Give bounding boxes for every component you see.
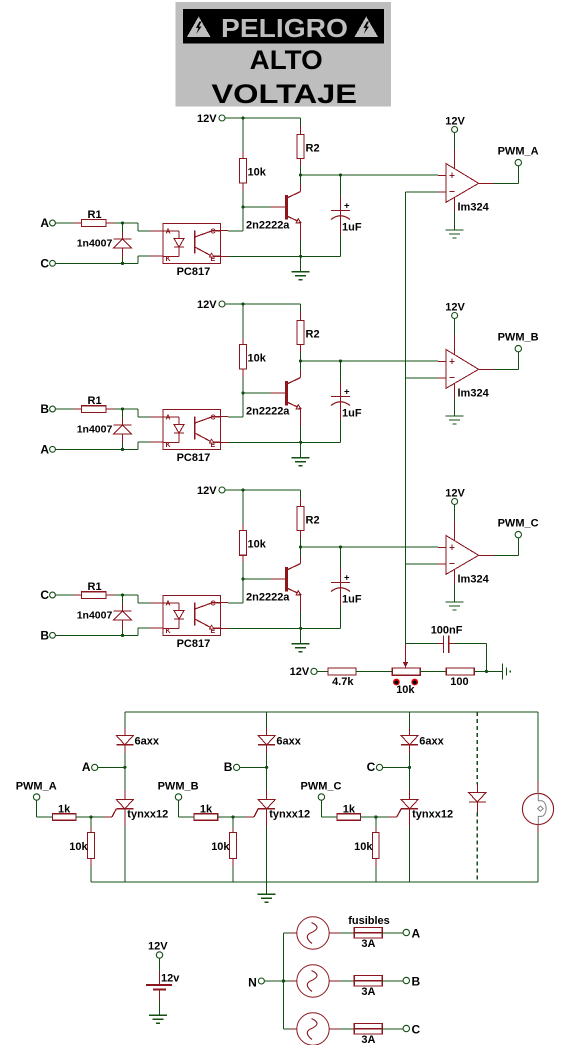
svg-text:C: C xyxy=(211,601,216,608)
junction xyxy=(299,441,302,444)
wire R1 to opto xyxy=(106,595,163,603)
wire 1k to gate xyxy=(218,816,254,818)
wire pot to 100 xyxy=(420,670,446,672)
thyristor SCR1 tynxx12 xyxy=(112,767,168,882)
wire base wire xyxy=(243,392,285,394)
node PWM_A gate terminal xyxy=(16,781,57,801)
ground (op-amp 2) xyxy=(446,384,464,424)
warning triangle right xyxy=(355,17,378,37)
svg-text:tynxx12: tynxx12 xyxy=(127,809,168,821)
svg-text:lm324: lm324 xyxy=(458,388,490,400)
svg-text:ALTO: ALTO xyxy=(250,45,323,75)
wire 1k to gate xyxy=(76,816,112,818)
node PWM_B gate terminal xyxy=(158,781,199,801)
diode (dashed branch) xyxy=(469,785,486,813)
svg-text:C: C xyxy=(40,257,49,271)
wire minus input xyxy=(406,377,447,379)
junction xyxy=(299,545,302,548)
svg-text:K: K xyxy=(166,442,171,449)
wire rail to R2 xyxy=(300,118,302,134)
resistor 100 xyxy=(446,668,474,688)
resistor 10k (gate pulldown, block 2) xyxy=(211,817,236,882)
wire 10k branch xyxy=(242,118,244,158)
svg-text:PWM_B: PWM_B xyxy=(498,332,539,344)
svg-text:1uF: 1uF xyxy=(342,594,362,606)
wire source to fuse xyxy=(329,1028,354,1030)
wire op-amp output xyxy=(479,352,519,369)
ground (op-amp 3) xyxy=(446,570,464,610)
AC source V2 xyxy=(297,965,329,997)
resistor 10k (stage 2 base pullup) xyxy=(240,344,267,369)
wire op-amp output xyxy=(479,166,519,183)
svg-text:PWM_A: PWM_A xyxy=(498,146,539,158)
transistor Q1 2n2222a xyxy=(246,192,301,232)
svg-text:B: B xyxy=(40,629,49,643)
svg-text:R1: R1 xyxy=(88,209,102,221)
node B (mains phase) xyxy=(403,975,420,989)
svg-text:+: + xyxy=(344,573,350,584)
op-amp U6 lm324 xyxy=(446,536,490,586)
ground (battery) xyxy=(149,1015,167,1023)
wire emitter down xyxy=(300,595,302,629)
svg-text:R2: R2 xyxy=(306,329,320,341)
svg-text:10k: 10k xyxy=(396,684,415,696)
junction xyxy=(241,116,244,119)
svg-text:1n4007: 1n4007 xyxy=(77,610,113,622)
wire phase to SCR xyxy=(383,766,410,768)
wire rail to R2 xyxy=(300,490,302,506)
svg-text:A: A xyxy=(166,415,171,422)
wire collector node to op-amp xyxy=(301,546,447,548)
svg-text:100: 100 xyxy=(450,676,468,688)
wire R2 to collector node xyxy=(300,344,302,377)
wire emitter rail xyxy=(221,441,341,443)
junction xyxy=(241,302,244,305)
banner black bar xyxy=(183,9,384,44)
capacitor 1uF (stage 2) xyxy=(331,361,362,442)
svg-text:6axx: 6axx xyxy=(135,736,160,748)
junction xyxy=(241,391,244,394)
resistor 10k (gate pulldown, block 3) xyxy=(354,817,379,882)
junction xyxy=(121,448,124,451)
node N (neutral) xyxy=(248,976,264,990)
junction xyxy=(231,815,234,818)
node A (stage 1 input) xyxy=(40,216,55,230)
wire 1k to gate xyxy=(361,816,397,818)
svg-text:PWM_C: PWM_C xyxy=(301,781,342,793)
wire dashed branch xyxy=(476,712,478,882)
node A (phase input) xyxy=(82,760,98,774)
junction xyxy=(121,634,124,637)
power terminal 12V (stage 1) xyxy=(197,113,225,125)
svg-text:12v: 12v xyxy=(161,973,180,985)
wire R1 to opto xyxy=(106,409,163,417)
ground (stage 2 emitter) xyxy=(292,442,310,465)
svg-text:PELIGRO: PELIGRO xyxy=(221,13,348,43)
resistor R1 (stage 3) xyxy=(81,581,105,598)
wire input to R1 xyxy=(55,222,81,224)
wire 12V rail xyxy=(225,303,301,305)
diode 1n4007 (stage 1) xyxy=(77,223,132,263)
node B (stage 3 return) xyxy=(40,629,55,643)
resistor 10k (stage 1 base pullup) xyxy=(240,158,267,183)
wire emitter rail xyxy=(221,627,341,629)
ground (bottom rail) xyxy=(258,882,276,902)
resistor R2 (stage 2) xyxy=(297,320,319,344)
junction xyxy=(339,545,342,548)
wire 12V to op-amp xyxy=(454,133,456,169)
wire neutral bus xyxy=(265,933,284,1029)
power terminal 12V (stage 2) xyxy=(197,299,225,311)
wire 4.7k to pot xyxy=(356,670,392,672)
svg-text:C: C xyxy=(40,588,49,602)
svg-text:1uF: 1uF xyxy=(342,222,362,234)
resistor R2 (stage 1) xyxy=(297,134,319,158)
svg-text:R2: R2 xyxy=(306,143,320,155)
node PWM_C gate terminal xyxy=(301,781,342,801)
svg-text:A: A xyxy=(412,927,421,941)
junction xyxy=(241,577,244,580)
svg-text:B: B xyxy=(412,975,421,989)
node C (mains phase) xyxy=(403,1023,420,1037)
wire emitter down xyxy=(300,409,302,443)
node PWM_A output terminal xyxy=(498,146,539,166)
svg-text:lm324: lm324 xyxy=(458,202,490,214)
junction xyxy=(408,766,411,769)
wire 10k branch xyxy=(242,304,244,344)
power terminal 12V (op-amp 2) xyxy=(445,301,465,318)
wire R2 to collector node xyxy=(300,530,302,563)
resistor 10k (gate pulldown, block 1) xyxy=(69,817,94,882)
wire bus to source xyxy=(283,1028,296,1030)
svg-text:2n2222a: 2n2222a xyxy=(246,406,290,418)
wire phase to SCR xyxy=(240,766,267,768)
wire input to R1 xyxy=(55,594,81,596)
svg-text:1k: 1k xyxy=(200,803,213,815)
opto-coupler U1 PC817 xyxy=(163,224,221,279)
svg-text:1n4007: 1n4007 xyxy=(77,424,113,436)
svg-text:C: C xyxy=(211,229,216,236)
junction xyxy=(374,815,377,818)
svg-text:10k: 10k xyxy=(69,841,88,853)
wire bus to source xyxy=(283,980,296,982)
wire emitter rail xyxy=(221,255,341,257)
wire 12V to 4.7k xyxy=(317,670,328,672)
power terminal 12V (op-amp 3) xyxy=(445,487,465,504)
junction xyxy=(299,359,302,362)
wire opto C to base node xyxy=(221,602,244,604)
wire gate drive xyxy=(37,800,53,817)
wire 12V to op-amp xyxy=(454,319,456,355)
junction xyxy=(339,173,342,176)
svg-text:PC817: PC817 xyxy=(177,638,211,650)
power terminal 12V (stage 3) xyxy=(197,485,225,497)
junction xyxy=(265,766,268,769)
transistor Q2 2n2222a xyxy=(246,378,301,418)
svg-text:3A: 3A xyxy=(361,1034,375,1045)
capacitor 1uF (stage 1) xyxy=(331,175,362,256)
junction xyxy=(121,221,124,224)
svg-text:6axx: 6axx xyxy=(419,736,444,748)
svg-text:PWM_A: PWM_A xyxy=(16,781,57,793)
svg-text:PWM_C: PWM_C xyxy=(498,518,539,530)
power terminal 12V (battery) xyxy=(148,940,168,958)
wire R2 to collector node xyxy=(300,158,302,191)
junction xyxy=(121,262,124,265)
junction xyxy=(282,979,285,982)
junction xyxy=(123,766,126,769)
svg-text:A: A xyxy=(166,229,171,236)
svg-text:B: B xyxy=(40,402,49,416)
node PWM_C output terminal xyxy=(498,518,539,538)
resistor R1 (stage 2) xyxy=(81,395,105,412)
junction xyxy=(485,670,488,673)
wire emitter down xyxy=(300,223,302,257)
svg-text:12V: 12V xyxy=(445,301,465,313)
junction xyxy=(121,593,124,596)
svg-text:R1: R1 xyxy=(88,395,102,407)
resistor R1 (stage 1) xyxy=(81,209,105,226)
power terminal 12V (reference divider) xyxy=(290,666,317,678)
wire source to fuse xyxy=(329,932,354,934)
resistor 10k (stage 3 base pullup) xyxy=(240,530,267,555)
svg-text:C: C xyxy=(211,415,216,422)
svg-text:10k: 10k xyxy=(248,167,267,179)
wire fuse to terminal xyxy=(382,932,403,934)
junction xyxy=(299,627,302,630)
node C (stage 1 return) xyxy=(40,257,55,271)
wire return to opto K xyxy=(55,628,163,635)
diode 1n4007 (stage 2) xyxy=(77,409,132,449)
ground (stage 3 emitter) xyxy=(292,628,310,651)
wire opto C to base node xyxy=(221,230,244,232)
svg-text:A: A xyxy=(40,443,49,457)
wire minus input xyxy=(406,191,447,193)
svg-text:12V: 12V xyxy=(290,666,310,678)
svg-text:1uF: 1uF xyxy=(342,408,362,420)
opto-coupler U3 PC817 xyxy=(163,596,221,651)
wire AC top rail xyxy=(125,711,538,713)
wire base wire xyxy=(243,578,285,580)
ground (op-amp 1) xyxy=(446,198,464,238)
svg-text:A: A xyxy=(166,601,171,608)
junction xyxy=(241,205,244,208)
junction xyxy=(121,407,124,410)
wire collector node to op-amp xyxy=(301,174,447,176)
wire collector node to op-amp xyxy=(301,360,447,362)
svg-text:fusibles: fusibles xyxy=(348,915,390,927)
op-amp U4 lm324 xyxy=(446,164,490,214)
svg-text:tynxx12: tynxx12 xyxy=(412,809,453,821)
thyristor SCR2 tynxx12 xyxy=(254,767,310,882)
op-amp U5 lm324 xyxy=(446,350,490,400)
svg-text:1k: 1k xyxy=(343,803,356,815)
wire 12V rail xyxy=(225,489,301,491)
svg-text:PC817: PC817 xyxy=(177,266,211,278)
svg-text:10k: 10k xyxy=(211,841,230,853)
svg-text:C: C xyxy=(412,1023,421,1037)
resistor 4.7k xyxy=(328,668,356,688)
svg-text:12V: 12V xyxy=(197,113,217,125)
svg-text:+: + xyxy=(344,387,350,398)
wire return to opto K xyxy=(55,256,163,263)
svg-text:3A: 3A xyxy=(361,938,375,950)
node B (phase input) xyxy=(224,760,240,774)
junction xyxy=(299,173,302,176)
wire minus input xyxy=(406,563,447,565)
AC source V3 xyxy=(297,1013,329,1045)
wire 10k to base node xyxy=(242,369,244,417)
capacitor 100nF xyxy=(406,625,487,672)
wire return to opto K xyxy=(55,442,163,449)
wire 10k to base node xyxy=(242,555,244,603)
svg-text:tynxx12: tynxx12 xyxy=(269,809,310,821)
resistor 1k (gate, block 2) xyxy=(194,803,218,820)
svg-text:12V: 12V xyxy=(148,940,168,952)
wire 12V rail xyxy=(225,117,301,119)
junction xyxy=(241,488,244,491)
svg-text:12V: 12V xyxy=(445,115,465,127)
fuse F1 3A xyxy=(354,928,382,951)
node C (stage 3 input) xyxy=(40,588,55,602)
svg-text:6axx: 6axx xyxy=(276,736,301,748)
warning triangle left xyxy=(187,17,210,37)
wire 10k to base node xyxy=(242,183,244,231)
wire bottom rail xyxy=(91,881,538,883)
wire phase to SCR xyxy=(98,766,125,768)
svg-text:12V: 12V xyxy=(197,485,217,497)
svg-text:A: A xyxy=(82,760,91,774)
node B (stage 2 input) xyxy=(40,402,55,416)
svg-text:A: A xyxy=(40,216,49,230)
svg-text:PC817: PC817 xyxy=(177,452,211,464)
wire input to R1 xyxy=(55,408,81,410)
junction xyxy=(89,815,92,818)
wire op-amp output xyxy=(479,538,519,555)
wire 100 to ground xyxy=(474,670,502,672)
svg-text:2n2222a: 2n2222a xyxy=(246,220,290,232)
wire 12V to op-amp xyxy=(454,505,456,541)
svg-text:10k: 10k xyxy=(248,539,267,551)
lamp load xyxy=(522,781,553,833)
transistor Q3 2n2222a xyxy=(246,564,301,604)
node A (stage 2 return) xyxy=(40,443,55,457)
battery 12v xyxy=(146,958,180,1015)
wire 10k branch xyxy=(242,490,244,530)
wire gate drive xyxy=(321,800,337,817)
svg-text:PWM_B: PWM_B xyxy=(158,781,199,793)
junction xyxy=(339,359,342,362)
resistor R2 (stage 3) xyxy=(297,506,319,530)
wire gate drive xyxy=(179,800,195,817)
wire source to fuse xyxy=(329,980,354,982)
svg-text:1k: 1k xyxy=(58,803,71,815)
capacitor 1uF (stage 3) xyxy=(331,547,362,628)
svg-text:+: + xyxy=(344,201,350,212)
ground (stage 1 emitter) xyxy=(292,256,310,279)
node A (mains phase) xyxy=(403,927,420,941)
svg-text:K: K xyxy=(166,628,171,635)
svg-text:lm324: lm324 xyxy=(458,574,490,586)
wire fuse to terminal xyxy=(382,1028,403,1030)
svg-text:N: N xyxy=(248,976,257,990)
AC source V1 xyxy=(297,917,329,949)
svg-text:100nF: 100nF xyxy=(431,625,463,637)
wire R1 to opto xyxy=(106,223,163,231)
svg-text:1n4007: 1n4007 xyxy=(77,238,113,250)
junction xyxy=(299,255,302,258)
warning banner box xyxy=(176,2,392,107)
ground (reference, rotated) xyxy=(503,663,511,679)
svg-text:3A: 3A xyxy=(361,986,375,998)
svg-text:2n2222a: 2n2222a xyxy=(246,592,290,604)
wire bus to source xyxy=(283,932,296,934)
diode 1n4007 (stage 3) xyxy=(77,595,132,635)
thyristor SCR3 tynxx12 xyxy=(397,767,453,882)
svg-text:R2: R2 xyxy=(306,515,320,527)
diode D3 6axx xyxy=(401,712,445,768)
node PWM_B output terminal xyxy=(498,332,539,352)
wire rail to R2 xyxy=(300,304,302,320)
wire base wire xyxy=(243,206,285,208)
fuse F3 3A xyxy=(354,1024,382,1047)
diode D1 6axx xyxy=(116,712,160,768)
svg-text:12V: 12V xyxy=(197,299,217,311)
node C (phase input) xyxy=(367,760,383,774)
resistor 1k (gate, block 1) xyxy=(52,803,76,820)
svg-text:4.7k: 4.7k xyxy=(332,676,354,688)
fuse F2 3A xyxy=(354,976,382,999)
diode D2 6axx xyxy=(258,712,302,768)
resistor 1k (gate, block 3) xyxy=(337,803,361,820)
potentiometer 10k xyxy=(392,644,420,697)
svg-text:VOLTAJE: VOLTAJE xyxy=(211,79,357,109)
svg-text:12V: 12V xyxy=(445,487,465,499)
wire fuse to terminal xyxy=(382,980,403,982)
svg-text:K: K xyxy=(166,256,171,263)
svg-text:10k: 10k xyxy=(354,841,373,853)
svg-text:10k: 10k xyxy=(248,353,267,365)
svg-text:C: C xyxy=(367,760,376,774)
wire opto C to base node xyxy=(221,416,244,418)
opto-coupler U2 PC817 xyxy=(163,410,221,465)
svg-text:B: B xyxy=(224,760,233,774)
power terminal 12V (op-amp 1) xyxy=(445,115,465,132)
wire reference bus vertical xyxy=(405,192,407,644)
svg-text:R1: R1 xyxy=(88,581,102,593)
wire right rail xyxy=(537,712,539,882)
